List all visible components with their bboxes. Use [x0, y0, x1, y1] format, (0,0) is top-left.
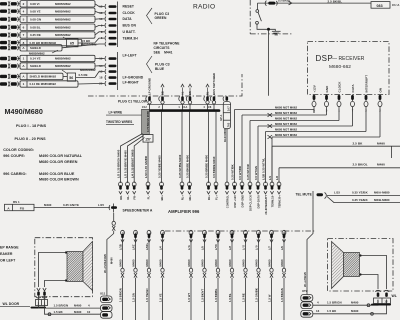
- label PLUG C3 GREEN: [155, 12, 170, 20]
- svg-text:0.5 WT/GN: 0.5 WT/GN: [254, 166, 258, 180]
- label TWISTED WIRES: [106, 120, 134, 124]
- svg-text:GREEN: GREEN: [155, 16, 168, 20]
- rail 2.5 BK/OL: [279, 163, 400, 183]
- svg-text:TERM.3H: TERM.3H: [123, 36, 139, 40]
- bottom wire 1.5 W: [267, 238, 273, 320]
- svg-text:0.08 YE: 0.08 YE: [30, 9, 41, 13]
- twisted wire bar: [147, 109, 220, 112]
- wire to plug pin DATA: [95, 18, 105, 20]
- bottom wire 1.5 GN: [131, 238, 137, 320]
- radio pin for 763 strip: [223, 96, 228, 101]
- svg-text:DSP-GND: DSP-GND: [240, 195, 244, 207]
- svg-text:M490 COLOR BLUE: M490 COLOR BLUE: [39, 172, 75, 176]
- svg-text:M490: M490: [351, 301, 359, 305]
- switch enclosure dash-dot: [250, 0, 292, 34]
- svg-text:2.5 BK/OL: 2.5 BK/OL: [353, 163, 368, 167]
- svg-text:L/1B: L/1B: [118, 244, 122, 250]
- svg-text:CONTROL: CONTROL: [225, 195, 229, 209]
- svg-text:L/0Z: L/0Z: [131, 244, 135, 250]
- wire row 0.08 BL pin 6: [0, 24, 95, 30]
- svg-text:PLUG II - 20 PINS: PLUG II - 20 PINS: [15, 137, 47, 141]
- svg-text:0.35 WT/BK: 0.35 WT/BK: [231, 164, 235, 180]
- wire row 0.08 YE pin 4: [0, 8, 95, 14]
- wire to plug pin BUS ON: [95, 25, 105, 27]
- wire row 0.35 BR M685/M692 pin 8: [0, 39, 82, 45]
- svg-text:4: 4: [23, 9, 25, 13]
- svg-text:1A7: 1A7: [226, 106, 230, 111]
- svg-text:1.5 BR/GN: 1.5 BR/GN: [327, 301, 342, 305]
- label deep range speaker: [0, 246, 19, 263]
- svg-text:EAKER: EAKER: [0, 252, 13, 256]
- bottom wire 1.5 BK/GN: [280, 238, 286, 320]
- tel mute wires: [327, 191, 400, 203]
- dash-dot segment amp: [165, 230, 316, 232]
- svg-text:L/1: L/1: [268, 175, 272, 180]
- wire M680 NOT M662 row 6: [272, 113, 380, 183]
- svg-text:1.5 BR/GN: 1.5 BR/GN: [54, 304, 69, 308]
- svg-text:M490: M490: [377, 163, 385, 167]
- svg-text:1.5 BR/GN: 1.5 BR/GN: [118, 288, 122, 302]
- plug C3 green brace: [147, 8, 153, 24]
- wire row SHIELD pin A: [0, 45, 62, 51]
- svg-text:M490: M490: [131, 259, 135, 266]
- wire shield2 to plug: [95, 65, 105, 67]
- amp input pin labels: [119, 195, 281, 215]
- svg-text:M680 COLOR BROWN: M680 COLOR BROWN: [39, 178, 79, 182]
- svg-text:LF-LEFT: LF-LEFT: [123, 53, 138, 57]
- svg-text:2.5 BK/BL: 2.5 BK/BL: [328, 0, 343, 3]
- svg-text:L/ 9: L/ 9: [254, 245, 258, 250]
- wire row 0.08 VI pin 2: [0, 1, 95, 7]
- svg-text:INTERRUPT: INTERRUPT: [364, 75, 368, 93]
- wire to plug pin U BATT.: [95, 32, 105, 35]
- svg-text:1.5 BK/VT: 1.5 BK/VT: [200, 288, 204, 302]
- svg-text:12: 12: [99, 5, 103, 9]
- svg-text:12: 12: [384, 299, 388, 303]
- svg-text:SHIELD: SHIELD: [30, 46, 41, 50]
- svg-text:M685/M692: M685/M692: [55, 17, 71, 21]
- svg-text:1/8: 1/8: [208, 106, 212, 109]
- svg-text:18: 18: [99, 76, 103, 80]
- svg-text:M685/M692: M685/M692: [55, 57, 71, 61]
- svg-text:13: 13: [99, 70, 103, 74]
- svg-text:WL: WL: [392, 294, 397, 298]
- label WL DOOR: [0, 302, 30, 306]
- svg-text:LF-RIGHT: LF-RIGHT: [123, 80, 140, 84]
- splice strip 763: [219, 102, 231, 184]
- svg-text:M490: M490: [74, 304, 82, 308]
- wire row 0.35 RE pin 7: [0, 32, 95, 38]
- svg-text:M685/M692: M685/M692: [55, 33, 71, 37]
- svg-text:BUS SWITCHED: BUS SWITCHED: [212, 73, 216, 95]
- svg-text:M490: M490: [200, 259, 204, 266]
- svg-text:L/15: L/15: [98, 203, 104, 207]
- wire LF-right to plug: [78, 83, 105, 86]
- svg-text:M680 NOT M662: M680 NOT M662: [275, 106, 297, 110]
- svg-text:1.5 RE: 1.5 RE: [241, 293, 245, 302]
- svg-text:0.08 VI: 0.08 VI: [30, 2, 40, 6]
- svg-text:LF-GROUND: LF-GROUND: [148, 78, 152, 95]
- svg-text:14: 14: [99, 64, 103, 68]
- svg-text:+12V: +12V: [312, 85, 316, 92]
- svg-text:ON: ON: [378, 88, 382, 93]
- svg-text:2K+4V/3H/4D/9: 2K+4V/3H/4D/9: [103, 254, 107, 273]
- svg-text:L/10 0.35 GN/BR: L/10 0.35 GN/BR: [144, 156, 148, 178]
- svg-text:0.75 BR/GN M/5B: 0.75 BR/GN M/5B: [147, 111, 150, 132]
- svg-text:1.5 GN/BK: 1.5 GN/BK: [254, 288, 258, 302]
- svg-text:10: 10: [99, 17, 103, 21]
- left speaker bottom wires: [39, 296, 101, 316]
- bottom wire 1.5 RE: [241, 238, 247, 320]
- bottom wire 1.5 BL: [228, 238, 234, 320]
- svg-text:2K+A7/B4/9: 2K+A7/B4/9: [303, 272, 307, 287]
- bottom wire 1.5 BK/VT: [200, 238, 206, 320]
- svg-text:157: 157: [145, 137, 151, 141]
- svg-text:L/9: L/9: [280, 246, 284, 250]
- radio bottom pins: [146, 84, 216, 104]
- label LF-WIRE: [106, 110, 142, 115]
- switch to ground: [256, 3, 281, 35]
- svg-text:M6/B-M680: M6/B-M680: [374, 198, 390, 202]
- svg-text:PLUG C3: PLUG C3: [155, 62, 170, 66]
- svg-text:PLUG C1 YELLOW: PLUG C1 YELLOW: [118, 100, 147, 104]
- svg-text:0.14 YE: 0.14 YE: [30, 57, 41, 61]
- svg-text:RAD M680: RAD M680: [223, 128, 227, 142]
- svg-text:U BATT.: U BATT.: [123, 30, 136, 34]
- svg-text:L/Z: L/Z: [228, 246, 232, 250]
- svg-text:0.35 RE: 0.35 RE: [30, 33, 41, 37]
- svg-text:M490: M490: [241, 259, 245, 266]
- svg-text:FL+: FL+: [214, 195, 218, 200]
- svg-text:RESET: RESET: [123, 5, 135, 9]
- svg-text:L/2 0.35 BR/GN M490: L/2 0.35 BR/GN M490: [117, 149, 121, 178]
- svg-text:SPEEDOMETER A: SPEEDOMETER A: [123, 208, 153, 212]
- wire to XT2: [303, 200, 313, 295]
- svg-text:2K-INTERRUPT: 2K-INTERRUPT: [264, 195, 268, 215]
- svg-text:13: 13: [316, 309, 320, 313]
- svg-text:FI5: FI5: [20, 206, 25, 210]
- svg-text:0.35 YE/BK: 0.35 YE/BK: [352, 198, 369, 202]
- svg-text:COLOR CODING:: COLOR CODING:: [3, 148, 34, 152]
- svg-text:0.35 WT/OR: 0.35 WT/OR: [246, 164, 250, 180]
- svg-text:1/12: 1/12: [142, 106, 148, 109]
- svg-text:DSP: DSP: [316, 54, 334, 63]
- svg-text:CLOCK: CLOCK: [123, 11, 136, 15]
- svg-text:0.35 GN/YE: 0.35 GN/YE: [63, 203, 79, 207]
- svg-text:GND: GND: [325, 85, 329, 93]
- wire fuse to speedometer: [34, 203, 110, 208]
- svg-text:56: 56: [69, 76, 73, 80]
- wire bar to amp x=216: [215, 112, 217, 184]
- tel mute connector: [296, 191, 327, 200]
- svg-text:DSP-DATA: DSP-DATA: [256, 195, 260, 208]
- svg-text:M490: M490: [351, 309, 359, 313]
- svg-text:7: 7: [23, 33, 25, 37]
- svg-text:M680 COLOR GREEN: M680 COLOR GREEN: [39, 160, 78, 164]
- left speaker: [67, 242, 93, 291]
- svg-text:DATA: DATA: [351, 84, 355, 93]
- inline connector row 2: [268, 113, 273, 117]
- svg-text:EP RANGE: EP RANGE: [0, 246, 19, 250]
- svg-text:L/5: L/5: [200, 246, 204, 250]
- svg-text:M490: M490: [158, 259, 162, 266]
- svg-text:1.5 BK: 1.5 BK: [327, 309, 337, 313]
- svg-text:L/4: L/4: [158, 246, 162, 250]
- svg-text:DSP +12V: DSP +12V: [233, 195, 237, 208]
- svg-text:13: 13: [99, 11, 103, 15]
- label M685/M692 mid: [62, 68, 96, 74]
- svg-text:M490: M490: [74, 310, 82, 314]
- svg-text:1.5 BR/BL: 1.5 BR/BL: [214, 288, 218, 302]
- rail 2.5 BK: [272, 141, 400, 183]
- svg-text:CIRCUITS: CIRCUITS: [154, 46, 171, 50]
- svg-text:763: 763: [226, 122, 230, 127]
- svg-text:0.35 BR/BE M490: 0.35 BR/BE M490: [205, 155, 209, 178]
- amplifier input pins: [119, 182, 281, 194]
- svg-text:M490: M490: [44, 203, 52, 207]
- svg-text:BLUE: BLUE: [155, 67, 165, 71]
- svg-text:083: 083: [377, 4, 383, 8]
- radio plug C1 connector strip: [99, 52, 117, 90]
- svg-text:M680-662: M680-662: [329, 64, 351, 70]
- wire M680 NOT M662 row 2: [242, 111, 327, 183]
- svg-text:0.08 GN: 0.08 GN: [30, 17, 41, 21]
- svg-text:M685/M692: M685/M692: [80, 68, 96, 72]
- svg-text:M490/M680: M490/M680: [5, 107, 43, 116]
- svg-text:M490: M490: [187, 259, 191, 266]
- wire speedometer to X11: [103, 213, 116, 296]
- svg-text:L/3 0.35 BR/YE M490: L/3 0.35 BR/YE M490: [124, 150, 128, 178]
- svg-text:0.35 YE/BE M490: 0.35 YE/BE M490: [158, 155, 162, 178]
- svg-text:5: 5: [23, 17, 25, 21]
- wire M680 NOT M662 row 3: [250, 113, 339, 183]
- right speaker wires: [359, 254, 386, 289]
- wire M680 NOT M662 row 4: [258, 113, 353, 183]
- inline connector row 4: [268, 124, 273, 128]
- wire M680 NOT M662 row 1: [235, 106, 315, 184]
- svg-text:AL: AL: [181, 91, 185, 95]
- wire bar to amp x=182: [181, 112, 183, 184]
- label DSP RECEIVER: [316, 54, 365, 70]
- svg-text:20: 20: [99, 82, 103, 86]
- svg-text:1: 1: [23, 82, 25, 86]
- box 083: [371, 2, 400, 9]
- svg-text:0.5 BR/RE M490: 0.5 BR/RE M490: [212, 156, 216, 178]
- svg-text:996 COUPE:: 996 COUPE:: [3, 154, 25, 158]
- svg-text:M685/M692: M685/M692: [55, 9, 71, 13]
- svg-text:NF TELEPHONE: NF TELEPHONE: [154, 42, 181, 46]
- left speaker enclosure box: [35, 238, 93, 297]
- svg-text:M490: M490: [280, 259, 284, 266]
- connector XT2: [301, 289, 313, 317]
- svg-text:1.5 GN: 1.5 GN: [131, 293, 135, 302]
- svg-text:BUS ON: BUS ON: [123, 24, 137, 28]
- svg-text:1.5 W: 1.5 W: [267, 294, 271, 302]
- left speaker boundary pins: [36, 288, 48, 306]
- svg-text:M680 NOT M662: M680 NOT M662: [275, 111, 297, 115]
- svg-text:SHIELD M685/M692: SHIELD M685/M692: [30, 75, 57, 79]
- svg-text:RADIO: RADIO: [193, 3, 215, 10]
- svg-text:M680 NOT M662: M680 NOT M662: [275, 122, 297, 126]
- svg-text:1.5 BK: 1.5 BK: [54, 310, 64, 314]
- fuse RS1 box: [5, 200, 35, 211]
- speedometer connector: [109, 204, 117, 213]
- LF wire row pin A: [0, 73, 63, 79]
- svg-text:AMPLIFIER 996: AMPLIFIER 996: [168, 209, 200, 214]
- svg-text:1/1A: 1/1A: [182, 106, 188, 109]
- svg-text:TEL MUTE: TEL MUTE: [296, 192, 312, 196]
- svg-text:6: 6: [23, 25, 25, 29]
- svg-text:RR-: RR-: [119, 195, 123, 200]
- svg-text:0.35 YE/BK: 0.35 YE/BK: [352, 191, 369, 195]
- svg-text:1: 1: [23, 57, 25, 61]
- svg-text:M490: M490: [110, 257, 114, 264]
- connector X11: [100, 291, 112, 318]
- bottom wire 1.5 WT: [187, 238, 193, 320]
- fan-out wires to amp: [121, 134, 149, 184]
- bottom wire 1.5 GN/BK: [254, 238, 260, 320]
- svg-text:M680 NOT M662: M680 NOT M662: [275, 133, 297, 137]
- svg-text:L/15: L/15: [334, 191, 340, 195]
- svg-text:1.5 BL: 1.5 BL: [228, 293, 232, 302]
- wire to plug pin CLOCK: [95, 11, 105, 13]
- svg-text:FL-: FL-: [146, 195, 150, 199]
- svg-text:996 CABRIO:: 996 CABRIO:: [3, 172, 27, 176]
- svg-text:BL: BL: [206, 91, 210, 95]
- svg-text:LF-WIRE: LF-WIRE: [109, 110, 123, 114]
- LF wire row pin 1: [0, 81, 78, 87]
- svg-text:M490: M490: [118, 259, 122, 266]
- LF wire row pin A: [0, 63, 95, 69]
- svg-text:1.5 BK/GN: 1.5 BK/GN: [280, 288, 284, 302]
- svg-text:0.08 BL: 0.08 BL: [30, 25, 41, 29]
- right speaker: [332, 242, 360, 289]
- svg-text:M490: M490: [377, 141, 385, 145]
- svg-text:TERM.30+: TERM.30+: [277, 195, 281, 208]
- bottom wire 1.5 BR/GN: [118, 238, 124, 320]
- svg-text:M490: M490: [145, 259, 149, 266]
- DSP receiver box: [308, 42, 390, 95]
- svg-text:M685/M692: M685/M692: [55, 25, 71, 29]
- svg-text:DSP-CLOCK: DSP-CLOCK: [248, 195, 252, 211]
- amplifier output pins: [118, 230, 286, 250]
- label 996 cabrio: [3, 172, 79, 182]
- splice box 65: [63, 37, 97, 47]
- right speaker boundary pins: [374, 290, 391, 303]
- left speaker wires: [39, 251, 68, 287]
- wire bar to amp x=208.5: [208, 112, 210, 184]
- svg-text:M680 NOT M662: M680 NOT M662: [275, 128, 297, 132]
- label PLUG C3 BLUE: [155, 62, 170, 70]
- bottom wire 1.5 YE/GN: [145, 238, 151, 320]
- svg-text:BB: BB: [161, 91, 165, 95]
- wire bar to amp x=189.5: [189, 112, 191, 184]
- svg-text:L/2: L/2: [275, 175, 279, 180]
- svg-text:1.5 YE/GN: 1.5 YE/GN: [145, 288, 149, 302]
- svg-text:SEE M441: SEE M441: [154, 50, 173, 54]
- svg-text:SHIELD: SHIELD: [30, 64, 41, 68]
- wire row 0.08 GN pin 5: [0, 16, 95, 22]
- twisted cable band: [142, 109, 150, 134]
- svg-text:2.5 BK: 2.5 BK: [353, 141, 364, 145]
- svg-text:— RECEIVER: — RECEIVER: [332, 56, 365, 62]
- svg-text:M490: M490: [254, 259, 258, 266]
- svg-text:M685/M692: M685/M692: [55, 64, 71, 68]
- svg-text:OR LEFT: OR LEFT: [0, 258, 16, 262]
- svg-text:TERM.15-: TERM.15-: [270, 195, 274, 207]
- wire M680 NOT M662 row 5: [266, 113, 367, 183]
- svg-text:1.5 YE: 1.5 YE: [158, 293, 162, 302]
- svg-text:L/4 0.35 BR/WT M490: L/4 0.35 BR/WT M490: [130, 149, 134, 178]
- svg-text:M490: M490: [267, 259, 271, 266]
- svg-text:WL DOOR: WL DOOR: [3, 302, 20, 306]
- svg-text:L/9D+: L/9D+: [145, 242, 149, 250]
- svg-text:M6/A-M680: M6/A-M680: [374, 191, 390, 195]
- svg-text:0.5 RE: 0.5 RE: [79, 73, 88, 77]
- svg-text:1.5 WT: 1.5 WT: [187, 293, 191, 302]
- wire from switch dot down: [268, 31, 270, 96]
- inline connector row 6: [268, 135, 273, 139]
- svg-text:RL+: RL+: [180, 195, 184, 201]
- DSP pins: [312, 75, 382, 113]
- svg-text:RS 1: RS 1: [13, 200, 20, 204]
- svg-text:CLOCK: CLOCK: [337, 81, 341, 93]
- wire shield row to plug: [62, 44, 105, 48]
- svg-text:65: 65: [70, 41, 74, 45]
- wires radio pins to bar: [142, 104, 231, 110]
- plug C3 blue brace: [147, 56, 153, 73]
- note NF telephone circuits: [154, 42, 181, 55]
- door boundary thick right: [371, 304, 391, 306]
- radio plug C2 connector strip: [99, 2, 117, 48]
- right speaker enclosure box: [328, 239, 394, 292]
- svg-text:10: 10: [87, 310, 91, 314]
- wire LF-left to plug: [95, 58, 105, 60]
- svg-text:RL-: RL-: [126, 195, 130, 200]
- LF wire row pin 1: [0, 55, 95, 61]
- row 7 label M685/M692: [29, 50, 58, 55]
- splice box 56: [67, 72, 104, 82]
- svg-text:0.5 WT/BR: 0.5 WT/BR: [238, 166, 242, 180]
- svg-text:RR+: RR+: [188, 195, 192, 201]
- bottom wire 1.5 BR/BL: [214, 238, 220, 320]
- svg-text:L/ S: L/ S: [241, 245, 245, 250]
- splice box 157: [143, 135, 153, 143]
- svg-text:XT2: XT2: [302, 289, 308, 293]
- svg-text:TWISTED WIRES: TWISTED WIRES: [106, 120, 132, 124]
- svg-text:FR+: FR+: [207, 195, 211, 201]
- svg-text:0.14 RE M685/M692: 0.14 RE M685/M692: [30, 82, 57, 86]
- svg-text:PLUG I - 18 PINS: PLUG I - 18 PINS: [16, 124, 47, 128]
- label 996 coupe: [3, 154, 83, 164]
- svg-text:DATA: DATA: [123, 17, 133, 21]
- svg-text:0.35 WT/BE M490: 0.35 WT/BE M490: [178, 154, 182, 178]
- svg-text:19: 19: [99, 57, 103, 61]
- radio box outline: [88, 74, 242, 96]
- svg-text:L/1B 0.35 WT/VL: L/1B 0.35 WT/VL: [262, 158, 266, 180]
- svg-text:LF-GROUND: LF-GROUND: [123, 75, 144, 79]
- wire to plug pin TERM.3H: [95, 38, 105, 43]
- svg-text:0.35 BK/BE M490: 0.35 BK/BE M490: [186, 155, 190, 178]
- svg-text:2: 2: [23, 2, 25, 6]
- svg-text:GP A: GP A: [219, 115, 223, 121]
- svg-text:BR: BR: [188, 91, 192, 95]
- svg-text:M685/M692: M685/M692: [55, 2, 71, 6]
- svg-text:0.5 BK/BL: 0.5 BK/BL: [278, 0, 291, 3]
- wire to plug pin RESET: [95, 4, 105, 7]
- svg-text:M680 NOT M662: M680 NOT M662: [275, 117, 297, 121]
- svg-text:BR+: BR+: [160, 195, 164, 201]
